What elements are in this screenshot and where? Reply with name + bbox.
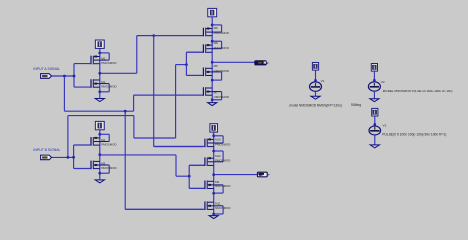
svg-text:PMOSMOD: PMOSMOD [101, 61, 116, 65]
svg-text:M10: M10 [215, 138, 221, 142]
svg-text:M12: M12 [215, 154, 221, 158]
svg-text:M8: M8 [214, 41, 218, 45]
svg-text:V3: V3 [383, 124, 387, 128]
svg-text:INPUT A SIGNAL: INPUT A SIGNAL [33, 67, 60, 71]
svg-text:PMOSMOD: PMOSMOD [215, 159, 230, 163]
svg-text:M7: M7 [214, 91, 218, 95]
svg-text:M11: M11 [215, 202, 221, 206]
svg-text:PMOSMOD: PMOSMOD [215, 142, 230, 146]
svg-text:PMOSMOD: PMOSMOD [214, 31, 229, 35]
svg-text:NMOSMOD: NMOSMOD [214, 69, 229, 73]
svg-text:NMOSMOD: NMOSMOD [101, 85, 116, 89]
svg-text:M3: M3 [101, 161, 105, 165]
svg-text:PMOSMOD: PMOSMOD [214, 46, 229, 50]
svg-text:NMOSMOD: NMOSMOD [101, 166, 116, 170]
svg-text:M1: M1 [101, 80, 105, 84]
svg-text:INPUT B SIGNAL: INPUT B SIGNAL [33, 148, 60, 152]
svg-text:NMOSMOD: NMOSMOD [215, 206, 230, 210]
svg-text:PULSE(0 5 100n 100p 100p 50n 1: PULSE(0 5 100n 100p 100p 50n 100n R=1) [382, 132, 446, 136]
svg-text:.MODEL PMOSMOD P(1.0E-14 100u: .MODEL PMOSMOD P(1.0E-14 100u 100u 2n 10… [382, 89, 453, 93]
svg-text:V1: V1 [321, 79, 325, 83]
svg-text:M5: M5 [214, 64, 218, 68]
svg-text:M4: M4 [101, 138, 105, 142]
svg-text:V2: V2 [381, 80, 385, 84]
svg-text:M9: M9 [215, 180, 219, 184]
svg-text:.model NMOSMOD NMOS(KP=120u): .model NMOSMOD NMOS(KP=120u) [289, 104, 342, 108]
svg-text:M2: M2 [101, 56, 105, 60]
svg-text:M6: M6 [214, 26, 218, 30]
svg-text:PMOSMOD: PMOSMOD [101, 142, 116, 146]
svg-text:NMOSMOD: NMOSMOD [215, 184, 230, 188]
svg-text:NMOSMOD: NMOSMOD [214, 95, 229, 99]
svg-text:50Meg: 50Meg [351, 103, 361, 107]
